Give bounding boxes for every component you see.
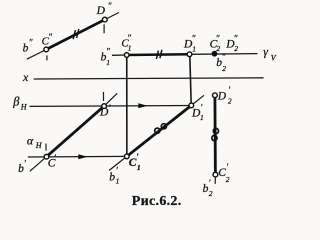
label D2' <box>217 85 232 106</box>
svg-text:D: D <box>96 5 106 17</box>
label b2' <box>203 178 213 198</box>
wire: segment C'D' thick <box>47 106 105 157</box>
svg-text:″: ″ <box>192 33 196 43</box>
svg-text:1: 1 <box>192 45 196 54</box>
svg-text:′: ′ <box>209 178 212 188</box>
svg-text:′: ′ <box>136 152 139 162</box>
svg-text:1: 1 <box>200 113 204 122</box>
wire: segment C1'D1' thick <box>127 105 192 156</box>
wire: line b' thin extension lower-left of C' <box>30 157 47 172</box>
arrow on beta_H transfer line <box>138 103 147 108</box>
label b1' <box>109 165 119 185</box>
tick: projection dash below C'' <box>46 55 48 60</box>
node C' <box>44 154 49 159</box>
svg-text:b: b <box>23 43 29 55</box>
svg-text:′: ′ <box>54 153 57 163</box>
label C1'' <box>121 33 131 52</box>
tick: projection dash below D'' <box>103 24 105 33</box>
wire: segment D2'C2' thick vertical <box>213 95 216 174</box>
tick: double mark on segment C1''D1'' <box>156 50 162 59</box>
label b1'' <box>101 46 111 67</box>
svg-text:′: ′ <box>226 162 229 172</box>
label D1'' <box>183 33 196 53</box>
svg-text:″: ″ <box>127 33 131 43</box>
node D' <box>102 104 107 109</box>
wire: line b'' thin extension upper-right of D'' <box>105 12 119 19</box>
node C'' <box>44 47 49 52</box>
label alpha_H <box>27 133 43 150</box>
svg-text:1: 1 <box>128 43 132 52</box>
node D1'' <box>187 52 192 57</box>
svg-text:1: 1 <box>106 58 110 67</box>
svg-text:′: ′ <box>116 165 119 175</box>
svg-text:2: 2 <box>216 44 220 53</box>
wire: line b1''/gamma_V left stub <box>112 54 127 56</box>
tick: double mark on segment C''D'' <box>73 29 79 39</box>
svg-text:α: α <box>27 133 34 147</box>
label beta_H <box>12 95 28 112</box>
label b2'' <box>216 52 226 73</box>
svg-text:″: ″ <box>216 33 220 43</box>
node D2' <box>213 93 218 98</box>
svg-text:′: ′ <box>228 85 231 95</box>
node C1' <box>124 154 129 159</box>
svg-text:2: 2 <box>226 175 230 184</box>
svg-text:V: V <box>271 54 277 63</box>
node C1'' <box>124 53 129 58</box>
svg-text:″: ″ <box>108 1 112 11</box>
svg-text:″: ″ <box>234 33 238 43</box>
mark: coincidence squiggle on b1' <box>155 124 167 134</box>
wire: x axis <box>34 78 264 79</box>
svg-text:2: 2 <box>228 97 232 106</box>
svg-text:2: 2 <box>209 189 213 198</box>
svg-text:′: ′ <box>24 159 27 169</box>
wire: line b1' thin extension lower-left of C1' <box>109 156 127 170</box>
wire: vertical projection line C1''-C1' <box>126 55 128 156</box>
wire: line b'' thin extension lower-left of C'' <box>27 50 46 60</box>
label b' <box>18 159 27 175</box>
label C1' bold <box>129 152 141 172</box>
tick: projection dash above D' <box>103 92 105 101</box>
label D1' <box>191 103 204 123</box>
node D'' <box>102 17 107 22</box>
svg-text:x: x <box>22 70 29 84</box>
node C2' <box>213 172 218 177</box>
mark: coincidence squiggle on b2' <box>212 128 219 140</box>
svg-text:H: H <box>20 103 28 112</box>
label C'' <box>42 32 53 47</box>
label b'' <box>23 38 33 55</box>
label gamma_V <box>263 45 277 63</box>
wire: beta_H horizontal line through D' to D1' <box>30 105 192 108</box>
svg-text:2: 2 <box>222 64 226 73</box>
svg-text:γ: γ <box>263 45 268 59</box>
wire: segment C1''D1'' thick <box>127 53 190 56</box>
svg-text:1: 1 <box>137 163 141 172</box>
wire: vertical projection line D1''-D1' <box>190 54 191 105</box>
svg-text:″: ″ <box>222 52 226 62</box>
wire: line b1' thin extension upper-right of D1' <box>191 95 204 105</box>
wire: alpha_H horizontal line through C' to C1' <box>28 155 127 158</box>
label C2'' <box>210 33 221 53</box>
tick: projection dash above C' <box>45 144 47 151</box>
label D2'' <box>225 33 238 53</box>
label D' <box>99 103 111 119</box>
svg-text:H: H <box>35 141 43 150</box>
svg-text:1: 1 <box>116 176 120 185</box>
svg-text:Рис.6.2.: Рис.6.2. <box>132 194 182 209</box>
svg-text:β: β <box>12 95 20 109</box>
label C' <box>48 153 57 169</box>
svg-text:b: b <box>109 172 115 184</box>
arrow on alpha_H transfer line <box>78 154 87 159</box>
label C2' <box>218 162 230 184</box>
svg-text:″: ″ <box>106 46 110 56</box>
svg-text:2: 2 <box>234 44 238 53</box>
wire: gamma_V line right part <box>190 53 258 56</box>
svg-text:′: ′ <box>108 103 111 113</box>
wire: segment C''D'' thick <box>46 20 105 50</box>
wire: line b' thin extension upper-right of D' <box>104 93 117 106</box>
svg-text:″: ″ <box>29 38 33 48</box>
node C2''=D2'' filled <box>212 51 217 56</box>
label D'' <box>96 1 112 17</box>
svg-text:″: ″ <box>48 32 52 42</box>
svg-text:D: D <box>217 90 227 102</box>
wire: line b2' thin extension below C2' <box>214 175 216 184</box>
svg-text:′: ′ <box>200 103 203 113</box>
node D1' <box>189 103 194 108</box>
